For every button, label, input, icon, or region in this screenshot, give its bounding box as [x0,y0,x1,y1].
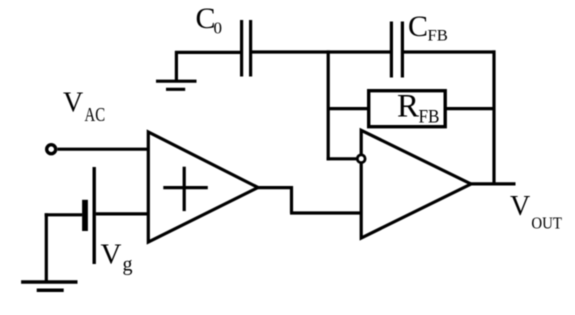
wire [328,107,369,110]
wire [96,212,148,215]
wire [45,213,82,216]
ground [21,213,77,290]
label Vg [101,238,133,275]
wire [252,50,390,53]
wire [257,186,363,213]
wire [445,107,494,110]
wire [404,50,496,53]
svg-text:R: R [397,89,419,125]
label CFB [408,10,448,45]
svg-text:0: 0 [214,19,223,38]
ground [156,51,197,89]
svg-text:FB: FB [419,106,440,127]
terminal VAC [47,145,56,154]
capacitor CFB [391,22,402,78]
svg-text:V: V [101,238,122,270]
wire [327,157,357,160]
label RFB [397,89,440,128]
wire [58,148,149,151]
svg-text:C: C [408,10,428,43]
wire [492,50,495,184]
svg-text:AC: AC [85,104,106,126]
svg-text:OUT: OUT [531,214,562,233]
wire [469,182,516,185]
label C0 [196,2,223,38]
svg-text:V: V [510,191,530,222]
node inverting input [357,155,365,163]
wire [327,50,330,160]
resistor RFB [369,91,446,127]
wire [175,51,240,54]
svg-text:g: g [123,254,133,276]
capacitor C0 [242,20,251,77]
label VAC [63,87,105,125]
op-amp U1 [148,132,258,242]
svg-text:C: C [196,2,216,35]
op-amp U2 [361,130,471,238]
label VOUT [510,191,563,233]
svg-text:V: V [63,87,83,118]
battery Vg [85,167,94,264]
svg-text:FB: FB [428,28,448,45]
